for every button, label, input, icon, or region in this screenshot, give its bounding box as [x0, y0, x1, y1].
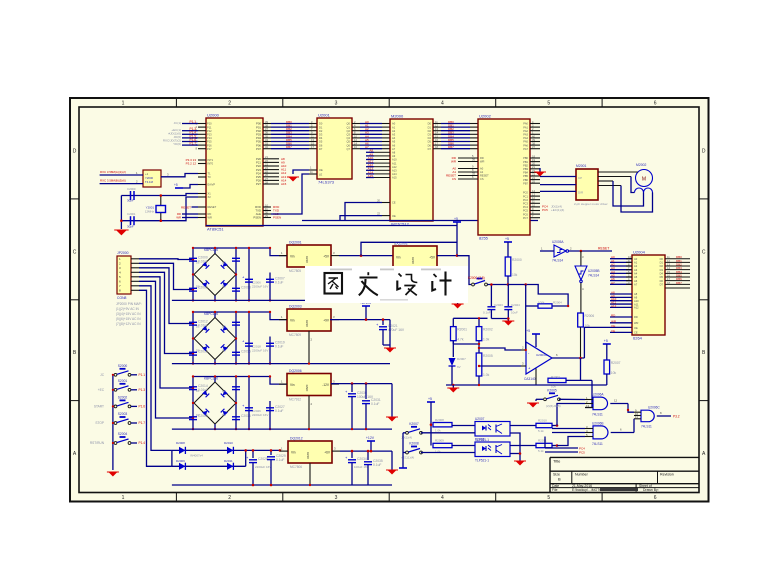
- svg-text:P07: P07: [256, 147, 261, 151]
- svg-text:4: 4: [441, 495, 444, 501]
- svg-text:2200uF 16V: 2200uF 16V: [252, 413, 268, 417]
- svg-text:JC: JC: [100, 373, 105, 377]
- svg-text:Q3: Q3: [347, 133, 351, 137]
- svg-text:C: C: [702, 249, 706, 255]
- sheet background: [70, 98, 709, 502]
- svg-text:GND: GND: [305, 320, 309, 328]
- svg-text:2200uF 16V: 2200uF 16V: [252, 349, 268, 353]
- svg-text:D3: D3: [428, 133, 432, 137]
- svg-text:Q2: Q2: [347, 129, 351, 133]
- svg-text:0.1uF: 0.1uF: [371, 402, 379, 406]
- svg-text:GND: GND: [305, 256, 309, 264]
- svg-text:OE: OE: [611, 324, 615, 328]
- U2000 left pins INT/T/EA/X/RESET/RD/WR: [186, 158, 217, 220]
- driver module M2001: [574, 164, 608, 206]
- svg-text:Vin: Vin: [290, 383, 295, 387]
- wire row4 regulator pins: [280, 447, 340, 486]
- svg-text:A14: A14: [392, 172, 397, 176]
- svg-text:CA3140: CA3140: [524, 377, 536, 381]
- svg-text:RESET: RESET: [480, 174, 489, 178]
- svg-text:PC3: PC3: [523, 202, 529, 206]
- svg-text:4.7k: 4.7k: [457, 338, 464, 342]
- svg-text:WR: WR: [208, 216, 212, 220]
- svg-text:2: 2: [228, 495, 231, 501]
- svg-text:P13: P13: [207, 133, 212, 137]
- svg-text:P1.6: P1.6: [139, 405, 146, 409]
- svg-text:Revision: Revision: [660, 473, 674, 477]
- svg-text:10uF: 10uF: [511, 311, 518, 315]
- capacitor C2008 row3: [189, 414, 208, 420]
- svg-text:2: 2: [228, 101, 231, 107]
- svg-text:MC7912: MC7912: [289, 398, 301, 402]
- capacitor C2005 row1: [189, 286, 208, 292]
- svg-text:D2: D2: [428, 129, 432, 133]
- svg-text:A3: A3: [634, 268, 638, 272]
- svg-text:U2005A: U2005A: [552, 240, 564, 244]
- U2000 left pins P1.0-P1.7: [195, 122, 212, 151]
- svg-text:RESET: RESET: [181, 205, 191, 209]
- svg-text:10k: 10k: [512, 273, 518, 277]
- svg-text:INT1: INT1: [208, 158, 214, 162]
- ground U2001 OE: [289, 177, 298, 182]
- svg-text:P1.1: P1.1: [189, 120, 196, 124]
- wire opto left bus: [399, 433, 407, 468]
- svg-text:PB3: PB3: [523, 167, 528, 171]
- capacitor C2023: [483, 283, 508, 318]
- wire regulator row3 pins: [279, 380, 339, 430]
- pio U2002 8255: [478, 119, 530, 235]
- svg-text:PA3: PA3: [523, 133, 528, 137]
- svg-text:A8: A8: [392, 151, 396, 155]
- U2000 right pins P0.0-P0.7 bus to U2001: [256, 120, 317, 151]
- svg-text:P3.2 12: P3.2 12: [186, 162, 197, 166]
- svg-text:P12: P12: [207, 129, 212, 133]
- svg-text:PA1: PA1: [523, 125, 528, 129]
- crystal X2000 circuit: [120, 187, 198, 229]
- svg-text:K2007: K2007: [409, 422, 419, 426]
- svg-text:WR: WR: [451, 160, 457, 164]
- svg-text:D2007: D2007: [457, 357, 466, 361]
- svg-text:C2026: C2026: [252, 409, 261, 413]
- svg-text:D: D: [702, 149, 706, 155]
- svg-text:P1.1: P1.1: [139, 373, 146, 377]
- svg-text:RESET: RESET: [598, 247, 609, 251]
- svg-text:74LS373: 74LS373: [318, 180, 335, 185]
- svg-text:U2008: U2008: [475, 438, 485, 442]
- svg-text:CE: CE: [392, 201, 396, 205]
- svg-text:YD(6): YD(6): [173, 142, 181, 146]
- svg-text:A2: A2: [634, 264, 638, 268]
- svg-text:0.1uF: 0.1uF: [483, 311, 491, 315]
- zener diode D2007: [449, 341, 467, 385]
- svg-text:K2000 (7.5): K2000 (7.5): [468, 276, 485, 280]
- M2000 left pins A0-A15: [366, 122, 397, 180]
- watermark faint remnants: [330, 269, 441, 301]
- svg-text:D5: D5: [319, 140, 323, 144]
- svg-text:D2: D2: [222, 389, 226, 393]
- svg-text:START: START: [94, 405, 104, 409]
- wire U2004 chip-enable column: [584, 327, 632, 358]
- svg-text:U2006B: U2006B: [592, 422, 604, 426]
- svg-text:C2023: C2023: [494, 303, 503, 307]
- svg-text:PC4: PC4: [523, 205, 529, 209]
- svg-text:0.1uF: 0.1uF: [275, 409, 283, 413]
- svg-text:R2003: R2003: [551, 375, 560, 379]
- svg-text:74LS14: 74LS14: [552, 259, 563, 263]
- svg-text:PC1: PC1: [523, 194, 529, 198]
- svg-text:2200uF 16V: 2200uF 16V: [255, 465, 271, 469]
- svg-text:WR: WR: [634, 321, 638, 325]
- capacitor row3 lower right: [232, 414, 251, 420]
- eprom M2000 W27C512: [390, 119, 433, 221]
- svg-text:STOP: STOP: [95, 421, 104, 425]
- svg-text:U2002: U2002: [479, 114, 492, 119]
- svg-text:12: 12: [614, 399, 618, 403]
- svg-text:A1: A1: [634, 261, 638, 265]
- svg-text:D7: D7: [428, 147, 432, 151]
- wire PC4 PC5 nets: [545, 437, 585, 455]
- svg-text:WR: WR: [176, 216, 181, 220]
- svg-text:3: 3: [335, 495, 338, 501]
- and gate U2006C 74LS11: [634, 406, 680, 429]
- svg-text:CS: CS: [480, 177, 484, 181]
- resistor R2010: [510, 419, 558, 434]
- svg-text:1.0k: 1.0k: [435, 429, 441, 433]
- svg-text:+EC: +EC: [98, 388, 105, 392]
- svg-text:A0: A0: [634, 257, 638, 261]
- svg-text:1: 1: [122, 495, 125, 501]
- svg-text:CP: CP: [578, 176, 582, 180]
- stepper motor M2002: [635, 163, 653, 193]
- crystal oscillator Y2000 module: [143, 170, 161, 187]
- power +5 bar mid rail: [453, 217, 461, 226]
- svg-text:PB5: PB5: [523, 174, 528, 178]
- wire gate A input 2: [585, 380, 592, 407]
- svg-text:2-ph stepper motor driver: 2-ph stepper motor driver: [574, 202, 608, 206]
- ground C2024: [504, 321, 513, 326]
- svg-text:6264: 6264: [633, 336, 643, 341]
- svg-text:M2002: M2002: [636, 163, 646, 167]
- svg-text:P17: P17: [207, 147, 212, 151]
- optocoupler U2008 TLP521-1: [475, 438, 510, 463]
- svg-text:R2004: R2004: [553, 301, 562, 305]
- wire row4 ground bus: [172, 484, 392, 487]
- svg-text:CE: CE: [611, 329, 615, 333]
- capacitor C2012 row2: [189, 320, 208, 328]
- svg-text:D4: D4: [222, 285, 226, 289]
- wire opto outputs to gates: [557, 404, 585, 446]
- svg-text:74LS14: 74LS14: [588, 274, 599, 278]
- svg-text:R2002: R2002: [483, 328, 493, 332]
- svg-text:D0: D0: [319, 122, 323, 126]
- svg-text:Drawn By:: Drawn By:: [643, 488, 659, 492]
- wire regulator row1 pins: [279, 251, 339, 300]
- svg-text:D4: D4: [319, 136, 323, 140]
- power +5 bar above R2000: [504, 237, 512, 257]
- svg-text:Vin: Vin: [290, 255, 295, 259]
- resistor R2000: [505, 257, 522, 285]
- svg-text:D2: D2: [222, 261, 226, 265]
- svg-text:A15: A15: [392, 176, 397, 180]
- svg-text:A13: A13: [392, 169, 397, 173]
- svg-text:DQ2001: DQ2001: [289, 241, 302, 245]
- svg-text:PC5: PC5: [542, 208, 548, 212]
- svg-text:C2024: C2024: [511, 303, 520, 307]
- svg-text:Vin: Vin: [396, 256, 401, 260]
- optocoupler U2007 TLP521-1: [475, 417, 510, 442]
- svg-text:DQ2003: DQ2003: [289, 305, 302, 309]
- latch U2001 74LS373: [317, 118, 352, 179]
- bridge rectifier row1 KBPC106: [194, 248, 236, 296]
- svg-text:M2001: M2001: [576, 164, 586, 168]
- svg-text:U2005B: U2005B: [588, 269, 600, 273]
- svg-text:+6V: +6V: [324, 451, 331, 455]
- svg-text:X2: X2: [208, 195, 212, 199]
- svg-text:74LS11: 74LS11: [592, 442, 603, 446]
- svg-text:PB1: PB1: [523, 160, 528, 164]
- svg-text:P3.2: P3.2: [673, 415, 680, 419]
- svg-text:A1: A1: [480, 170, 484, 174]
- svg-text:CON8: CON8: [117, 296, 127, 300]
- svg-text:5.1k: 5.1k: [538, 429, 544, 433]
- svg-text:GND: GND: [306, 452, 310, 460]
- svg-text:D2011: D2011: [224, 459, 233, 463]
- svg-text:D2009: D2009: [176, 459, 185, 463]
- svg-text:D2: D2: [222, 325, 226, 329]
- svg-text:R2001: R2001: [457, 328, 467, 332]
- svg-text:+5: +5: [604, 339, 608, 343]
- svg-text:1: 1: [122, 101, 125, 107]
- svg-text:A6: A6: [392, 143, 396, 147]
- svg-text:Q5: Q5: [347, 140, 351, 144]
- svg-text:D4: D4: [428, 136, 432, 140]
- svg-text:INT0: INT0: [208, 162, 214, 166]
- row4 output caps and power arrow: [340, 436, 392, 485]
- svg-text:Q6: Q6: [347, 143, 351, 147]
- switch K2007: [401, 422, 475, 440]
- svg-text:D6: D6: [319, 143, 323, 147]
- svg-text:0.1uF: 0.1uF: [275, 281, 283, 285]
- U2004 right data pins: [660, 255, 690, 288]
- svg-text:R2006: R2006: [585, 314, 595, 318]
- resistor R2006 comparator column: [578, 313, 595, 380]
- svg-text:P15: P15: [207, 140, 212, 144]
- svg-text:P1.7: P1.7: [189, 142, 196, 146]
- svg-text:D: D: [73, 149, 77, 155]
- wire bridge row3 columns and rails: [192, 375, 287, 430]
- svg-text:4: 4: [441, 101, 444, 107]
- svg-text:U2000: U2000: [207, 113, 220, 118]
- svg-text:U2006C: U2006C: [648, 406, 660, 410]
- svg-text:Q1: Q1: [347, 125, 351, 129]
- svg-text:D6: D6: [660, 279, 664, 283]
- svg-text:+5: +5: [505, 237, 509, 241]
- capacitor row1 lower right: [232, 286, 251, 292]
- regulator row1 DQ2001: [287, 245, 331, 267]
- wire DQ2002 pins: [394, 242, 469, 273]
- capacitor C2013 row2: [189, 350, 208, 356]
- svg-text:OE: OE: [319, 168, 323, 172]
- frame row ticks and labels: [70, 149, 709, 458]
- electrolytic capacitor C2026 row3: [242, 375, 268, 430]
- svg-text:C2001: C2001: [127, 212, 136, 216]
- svg-text:U2006A: U2006A: [592, 393, 604, 397]
- svg-text:RST/RUN: RST/RUN: [90, 441, 105, 445]
- svg-text:S2003: S2003: [118, 412, 128, 416]
- op-amp U2003A: [521, 329, 552, 385]
- svg-text:D7: D7: [319, 147, 323, 151]
- svg-text:A2: A2: [392, 129, 396, 133]
- inverter U2005B 74LS14: [575, 266, 600, 313]
- ground opto: [516, 461, 525, 466]
- wire regulator row2 pins: [279, 315, 339, 364]
- svg-text:D2010: D2010: [224, 441, 233, 445]
- svg-text:DQ2006: DQ2006: [289, 369, 302, 373]
- svg-text:RD: RD: [634, 315, 638, 319]
- mcu U2000 AT89C51: [206, 118, 263, 226]
- wire JP2000 fan-out bundle: [139, 259, 193, 467]
- svg-text:PSEN: PSEN: [273, 216, 281, 220]
- ground crystal: [116, 230, 127, 235]
- svg-text:A7: A7: [634, 283, 638, 287]
- and gate U2006A 74LS11: [585, 393, 628, 417]
- svg-text:(5)(6)+15V AC IN: (5)(6)+15V AC IN: [116, 317, 141, 321]
- svg-text:PA7: PA7: [523, 147, 528, 151]
- capacitor C2007 row1 0.1uF: [266, 247, 285, 302]
- svg-text:0.1uF: 0.1uF: [373, 463, 381, 467]
- svg-text:A0: A0: [392, 122, 396, 126]
- svg-text:A15: A15: [281, 182, 287, 186]
- svg-text:PB7: PB7: [523, 181, 528, 185]
- ground row3 output: [388, 417, 397, 422]
- svg-text:File: File: [552, 488, 558, 492]
- and gate U2006B 74LS11: [585, 422, 634, 447]
- capacitor C2016 row3: [232, 387, 240, 390]
- U2002 right port pins PA PB PC: [523, 120, 564, 220]
- svg-text:CE: CE: [634, 331, 638, 335]
- svg-text:P1.4: P1.4: [139, 441, 146, 445]
- svg-text:D4: D4: [660, 272, 664, 276]
- svg-text:5.1k: 5.1k: [538, 449, 544, 453]
- svg-text:D2: D2: [660, 264, 664, 268]
- watermark char she: [397, 274, 417, 296]
- U2001 pin names: [319, 122, 351, 177]
- U2000 RESET wire: [176, 205, 198, 219]
- switch K2000: [457, 256, 509, 286]
- wire RESET net: [569, 247, 612, 267]
- svg-text:A11: A11: [392, 161, 397, 165]
- svg-text:C2018: C2018: [252, 345, 261, 349]
- diode D2009: [172, 459, 246, 470]
- svg-text:5: 5: [547, 101, 550, 107]
- svg-text:100uF 16V: 100uF 16V: [354, 465, 369, 469]
- svg-text:12MHz: 12MHz: [145, 210, 155, 214]
- svg-text:RESET: RESET: [208, 205, 217, 209]
- svg-text:Vin: Vin: [291, 451, 296, 455]
- svg-text:5: 5: [547, 495, 550, 501]
- svg-text:MC7806: MC7806: [290, 465, 302, 469]
- svg-text:10k: 10k: [611, 371, 617, 375]
- svg-text:C2013: C2013: [198, 350, 208, 354]
- svg-text:C2006: C2006: [252, 281, 261, 285]
- bridge rectifier row2 KBPC106: [194, 312, 236, 360]
- capacitor C2024: [504, 285, 520, 322]
- svg-text:(1)(2)+9V AC IN: (1)(2)+9V AC IN: [116, 307, 139, 311]
- connector JP2000: [117, 251, 139, 300]
- svg-text:C2034: C2034: [357, 457, 367, 461]
- svg-text:R2009: R2009: [435, 439, 444, 443]
- svg-text:IN4007x4: IN4007x4: [190, 454, 203, 458]
- capacitor C2019 row2 0.1uF: [266, 311, 285, 365]
- svg-text:A9: A9: [392, 154, 396, 158]
- svg-text:+5: +5: [428, 397, 432, 401]
- U2000 right pins RXD TXD ALE PSEN: [253, 203, 281, 219]
- svg-text:P10: P10: [207, 122, 212, 126]
- svg-text:WR: WR: [480, 160, 484, 164]
- wire K2000 node to comparator rail: [508, 283, 568, 306]
- svg-text:6: 6: [654, 495, 657, 501]
- svg-text:+9V: +9V: [323, 319, 330, 323]
- svg-text:P14: P14: [207, 136, 212, 140]
- svg-text:DQ2012: DQ2012: [290, 437, 303, 441]
- svg-text:A7: A7: [392, 147, 396, 151]
- wire bridge row2 columns and rails: [192, 311, 287, 365]
- svg-text:D2008: D2008: [176, 441, 185, 445]
- svg-text:(7)(8)+12V AC IN: (7)(8)+12V AC IN: [116, 322, 141, 326]
- svg-text:C2000: C2000: [127, 187, 136, 191]
- svg-text:D0: D0: [428, 122, 432, 126]
- svg-text:-12V: -12V: [322, 383, 330, 387]
- wire K2000 rail junction into U2005A input: [539, 250, 541, 252]
- resistor R2002: [476, 327, 493, 342]
- svg-text:RXC 3.58M(A)(1)(2): RXC 3.58M(A)(1)(2): [100, 170, 126, 174]
- svg-text:A12: A12: [634, 306, 639, 310]
- svg-text:30pF: 30pF: [127, 199, 134, 203]
- svg-text:A10: A10: [392, 158, 397, 162]
- wire oscillator output to T1: [161, 173, 198, 177]
- svg-text:T4.1M: T4.1M: [145, 180, 154, 184]
- electrolytic capacitor C2006 row1: [242, 247, 268, 302]
- svg-text:+12V: +12V: [366, 436, 375, 440]
- resistor R2008: [433, 418, 475, 433]
- svg-text:JC(1): JC(1): [174, 121, 181, 125]
- svg-text:X1: X1: [208, 192, 212, 196]
- inverter U2005A 74LS14: [540, 240, 569, 263]
- svg-text:C2028: C2028: [258, 457, 268, 461]
- svg-text:Title: Title: [553, 459, 561, 464]
- svg-text:+5V: +5V: [429, 256, 436, 260]
- wire analog mid connections: [453, 341, 521, 385]
- capacitor C2014 row3: [189, 384, 208, 392]
- svg-text:P11: P11: [207, 125, 212, 129]
- note annotation block: [116, 302, 142, 326]
- ground row1 bus end: [453, 304, 462, 309]
- svg-text:Vin: Vin: [290, 319, 295, 323]
- svg-text:PA6: PA6: [523, 143, 528, 147]
- svg-text:100k: 100k: [538, 301, 545, 305]
- svg-text:PA0: PA0: [523, 122, 528, 126]
- svg-text:JP2000 PIN MAP:: JP2000 PIN MAP:: [116, 302, 142, 306]
- svg-text:A15: A15: [368, 174, 374, 178]
- svg-text:R2008: R2008: [435, 418, 444, 422]
- ground K2005: [529, 403, 538, 408]
- svg-text:PSEN: PSEN: [253, 216, 261, 220]
- wire opto emitter ground: [510, 433, 521, 461]
- capacitor C2015 row2: [232, 322, 240, 325]
- regulator row2 DQ2003: [287, 309, 331, 331]
- svg-text:MC7805: MC7805: [289, 269, 301, 273]
- svg-text:D0: D0: [660, 257, 664, 261]
